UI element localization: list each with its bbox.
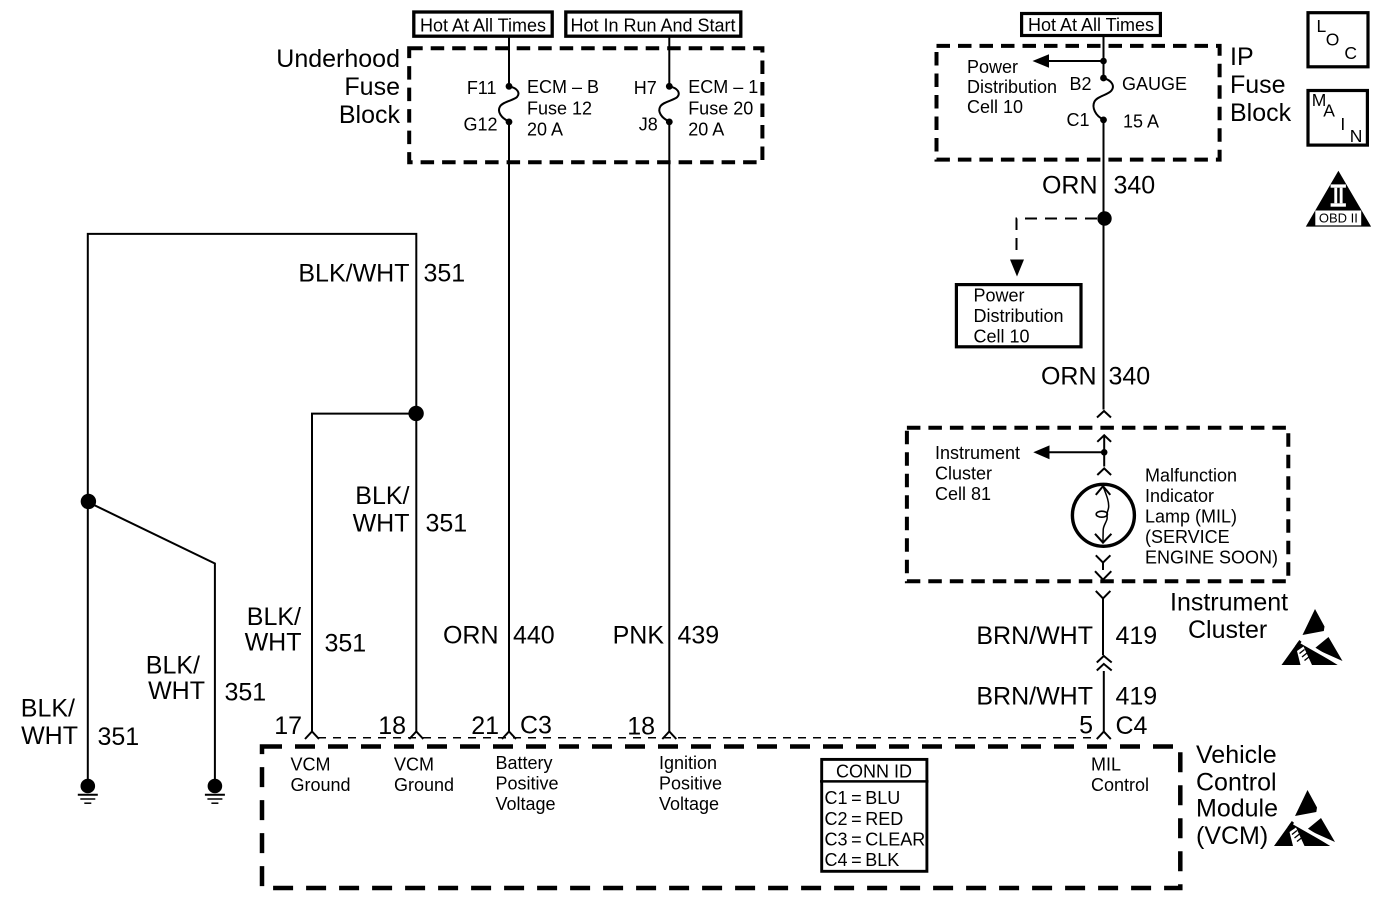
svg-text:Cluster: Cluster xyxy=(935,464,992,484)
label BLK/WHT 351 (top) xyxy=(298,260,465,288)
svg-text:Module: Module xyxy=(1196,795,1278,823)
svg-text:Cell 10: Cell 10 xyxy=(974,327,1030,347)
svg-text:340: 340 xyxy=(1109,363,1151,391)
svg-text:A: A xyxy=(1323,101,1335,121)
Instrument Cluster Cell 81 text xyxy=(935,443,1020,504)
svg-text:Cell 10: Cell 10 xyxy=(967,97,1023,117)
svg-text:ORN: ORN xyxy=(1041,363,1097,391)
dashed branch wire to Power Distribution xyxy=(1017,219,1098,258)
svg-text:18: 18 xyxy=(378,712,406,740)
Ignition Positive Voltage text xyxy=(659,753,722,814)
connector pair below lamp xyxy=(1095,555,1111,579)
svg-text:C1: C1 xyxy=(1066,110,1089,130)
svg-text:BLK/: BLK/ xyxy=(247,603,301,631)
svg-text:BLK/: BLK/ xyxy=(146,652,200,680)
fuse ECM-1 Fuse 20 20A (H7/J8) xyxy=(659,83,678,125)
Vehicle Control Module dashed box xyxy=(262,747,1180,889)
svg-text:Fuse 12: Fuse 12 xyxy=(527,99,592,119)
svg-text:Indicator: Indicator xyxy=(1145,486,1214,506)
wire junction to lamp xyxy=(1103,452,1105,466)
svg-text:Cluster: Cluster xyxy=(1188,616,1267,644)
Underhood Fuse Block label xyxy=(276,45,400,129)
svg-text:WHT: WHT xyxy=(353,510,410,538)
svg-text:C4 = BLK: C4 = BLK xyxy=(825,850,900,870)
Underhood Fuse Block dashed box xyxy=(409,48,762,162)
svg-text:Fuse: Fuse xyxy=(344,73,400,101)
Vehicle Control Module (VCM) label xyxy=(1196,741,1278,850)
connector at VCM pin 5 xyxy=(1097,732,1111,740)
svg-text:N: N xyxy=(1350,126,1363,146)
junction dot xyxy=(1100,58,1107,65)
svg-text:Battery: Battery xyxy=(496,753,553,773)
svg-text:C4: C4 xyxy=(1116,712,1148,740)
svg-text:BLK/WHT: BLK/WHT xyxy=(298,260,409,288)
svg-text:WHT: WHT xyxy=(148,677,205,705)
OBD II symbol xyxy=(1306,171,1371,227)
VCM Ground text 2 xyxy=(394,755,454,796)
svg-text:J8: J8 xyxy=(639,115,658,135)
svg-text:Distribution: Distribution xyxy=(974,306,1064,326)
wire ORN 440 xyxy=(508,125,510,732)
svg-text:CONN ID: CONN ID xyxy=(836,761,912,781)
svg-text:GAUGE: GAUGE xyxy=(1122,74,1187,94)
svg-text:IP: IP xyxy=(1230,43,1254,71)
thin dashed connector face line xyxy=(318,737,1096,739)
svg-text:Distribution: Distribution xyxy=(967,77,1057,97)
Power Distribution Cell 10 text (IP block) xyxy=(967,57,1057,117)
svg-text:Ground: Ground xyxy=(291,775,351,795)
svg-text:Control: Control xyxy=(1196,769,1277,797)
connector at VCM pin 21 xyxy=(502,732,516,740)
svg-text:Ignition: Ignition xyxy=(659,753,717,773)
MAIN reference box xyxy=(1308,90,1367,146)
Power Distribution Cell 10 box xyxy=(956,285,1081,347)
svg-text:BRN/WHT: BRN/WHT xyxy=(976,622,1093,650)
svg-text:Instrument: Instrument xyxy=(1170,589,1288,617)
svg-text:C: C xyxy=(1344,43,1357,63)
svg-text:Positive: Positive xyxy=(659,774,722,794)
svg-text:BLK/: BLK/ xyxy=(355,482,409,510)
junction dot (big) xyxy=(1097,211,1111,225)
svg-text:351: 351 xyxy=(98,723,140,751)
IP Fuse Block label xyxy=(1230,43,1292,127)
connector at VCM pin 17 xyxy=(305,732,319,740)
svg-text:G12: G12 xyxy=(463,115,497,135)
Battery Positive Voltage text xyxy=(496,753,559,814)
label PNK 439 xyxy=(613,622,720,650)
connector female at lamp xyxy=(1097,468,1111,475)
svg-text:BLK/: BLK/ xyxy=(21,695,75,723)
CONN ID table xyxy=(820,759,929,871)
svg-text:WHT: WHT xyxy=(21,722,78,750)
wire from Hot At All Times into IP block xyxy=(1103,37,1105,76)
wire BLK/WHT 351 to ground 2 xyxy=(88,502,215,779)
label BLK/WHT 351 (pin 17) xyxy=(245,603,367,658)
svg-text:20 A: 20 A xyxy=(527,120,563,140)
svg-text:Cell 81: Cell 81 xyxy=(935,484,991,504)
svg-text:17: 17 xyxy=(274,712,302,740)
junction dot xyxy=(81,494,96,509)
MIL Control text xyxy=(1091,755,1149,796)
svg-text:Underhood: Underhood xyxy=(276,45,400,73)
svg-text:MIL: MIL xyxy=(1091,755,1121,775)
svg-text:Lamp (MIL): Lamp (MIL) xyxy=(1145,507,1237,527)
svg-text:ORN: ORN xyxy=(1042,172,1098,200)
svg-text:OBD II: OBD II xyxy=(1319,210,1358,225)
ground G2 xyxy=(205,779,225,804)
ESD symbol (instrument cluster) xyxy=(1282,609,1343,665)
svg-text:20 A: 20 A xyxy=(688,120,724,140)
svg-text:Ground: Ground xyxy=(394,775,454,795)
svg-text:C2 = RED: C2 = RED xyxy=(825,809,904,829)
Instrument Cluster label xyxy=(1170,589,1288,645)
Malfunction Indicator Lamp text xyxy=(1145,465,1278,567)
svg-text:Fuse: Fuse xyxy=(1230,71,1286,99)
svg-text:5: 5 xyxy=(1079,712,1093,740)
svg-text:351: 351 xyxy=(426,510,468,538)
in-line connector (double chevron) xyxy=(1097,656,1112,671)
wire PNK 439 xyxy=(668,125,670,732)
label ORN 340 (2nd) xyxy=(1041,363,1150,391)
Instrument Cluster dashed box xyxy=(907,428,1288,582)
svg-text:ECM – B: ECM – B xyxy=(527,77,599,97)
label box "Hot At All Times" (underhood) xyxy=(414,12,552,36)
svg-text:PNK: PNK xyxy=(613,622,665,650)
svg-text:B2: B2 xyxy=(1069,74,1091,94)
svg-text:(SERVICE: (SERVICE xyxy=(1145,527,1230,547)
svg-text:(VCM): (VCM) xyxy=(1196,822,1268,850)
arrowhead down xyxy=(1010,260,1024,277)
svg-text:Malfunction: Malfunction xyxy=(1145,465,1237,485)
connector female into Instrument Cluster xyxy=(1097,411,1111,418)
LOC reference box xyxy=(1308,13,1368,67)
svg-text:Voltage: Voltage xyxy=(496,794,556,814)
connector male inside cluster xyxy=(1097,435,1111,452)
ground G1 xyxy=(78,779,98,804)
svg-text:351: 351 xyxy=(424,260,466,288)
wire BLK/WHT 351 from VCM pin 18 to ground xyxy=(88,234,417,779)
svg-text:C1 = BLU: C1 = BLU xyxy=(825,788,901,808)
svg-text:Hot At All Times: Hot At All Times xyxy=(1028,15,1154,35)
connector female below cluster box xyxy=(1096,591,1111,655)
svg-text:Hot At All Times: Hot At All Times xyxy=(420,16,546,36)
svg-text:BRN/WHT: BRN/WHT xyxy=(976,683,1093,711)
svg-text:C3 = CLEAR: C3 = CLEAR xyxy=(825,829,926,849)
svg-text:419: 419 xyxy=(1116,683,1158,711)
svg-text:ECM – 1: ECM – 1 xyxy=(688,77,758,97)
svg-text:Power: Power xyxy=(974,286,1025,306)
svg-text:H7: H7 xyxy=(634,78,657,98)
wire BLK/WHT 351 from VCM pin 17 xyxy=(312,414,416,732)
svg-text:Hot In Run And Start: Hot In Run And Start xyxy=(570,16,735,36)
lamp MIL circle xyxy=(1072,484,1134,546)
svg-text:351: 351 xyxy=(225,679,267,707)
IP Fuse Block dashed box xyxy=(937,46,1220,160)
ESD symbol (VCM) xyxy=(1274,790,1335,846)
wire from Hot In Run And Start to fuse H7 xyxy=(668,38,670,85)
svg-text:15 A: 15 A xyxy=(1123,112,1159,132)
svg-text:Positive: Positive xyxy=(496,774,559,794)
label BLK/WHT 351 (ground 1) xyxy=(21,695,139,752)
junction dot xyxy=(1101,449,1108,456)
svg-text:440: 440 xyxy=(513,622,555,650)
svg-text:439: 439 xyxy=(678,622,720,650)
svg-text:Instrument: Instrument xyxy=(935,443,1020,463)
label BLK/WHT 351 (ground 2) xyxy=(146,652,266,707)
wire from Hot At All Times to fuse F11 xyxy=(508,38,510,85)
svg-text:18: 18 xyxy=(627,713,655,741)
wire ORN 340 xyxy=(1103,123,1105,410)
svg-text:VCM: VCM xyxy=(291,755,331,775)
label BRN/WHT 419 (2nd) xyxy=(976,683,1157,711)
fuse GAUGE 15A (B2/C1) xyxy=(1094,75,1113,124)
arrow to Power Distribution Cell 10 xyxy=(1033,54,1104,67)
connector at VCM pin 18 xyxy=(409,732,423,740)
label BLK/WHT 351 (pin 18) xyxy=(353,482,468,538)
svg-text:VCM: VCM xyxy=(394,755,434,775)
svg-text:21: 21 xyxy=(471,712,499,740)
lamp filament xyxy=(1095,486,1111,542)
svg-text:Block: Block xyxy=(1230,99,1292,127)
svg-text:F11: F11 xyxy=(467,78,497,98)
VCM Ground text 1 xyxy=(291,755,351,796)
svg-text:419: 419 xyxy=(1116,622,1158,650)
wire BRN/WHT 419 to VCM xyxy=(1103,671,1105,732)
svg-text:340: 340 xyxy=(1114,172,1156,200)
connector at VCM pin 18 (ignition) xyxy=(662,732,676,740)
label box "Hot At All Times" (IP) xyxy=(1022,14,1161,36)
svg-text:Voltage: Voltage xyxy=(659,794,719,814)
label box "Hot In Run And Start" xyxy=(566,12,741,36)
svg-text:351: 351 xyxy=(325,630,367,658)
svg-text:Control: Control xyxy=(1091,775,1149,795)
junction dot xyxy=(408,406,423,421)
svg-text:WHT: WHT xyxy=(245,629,302,657)
svg-text:I: I xyxy=(1340,114,1345,134)
fuse ECM-B Fuse 12 20A (F11/G12) xyxy=(499,83,518,125)
label BRN/WHT 419 xyxy=(976,622,1157,650)
svg-text:Vehicle: Vehicle xyxy=(1196,741,1277,769)
label ORN 440 xyxy=(443,622,555,650)
svg-text:C3: C3 xyxy=(520,712,552,740)
svg-text:ORN: ORN xyxy=(443,622,499,650)
svg-text:Fuse 20: Fuse 20 xyxy=(688,99,753,119)
svg-text:Power: Power xyxy=(967,57,1018,77)
svg-text:Block: Block xyxy=(339,101,401,129)
arrow to Instrument Cluster Cell 81 xyxy=(1033,445,1104,459)
svg-text:ENGINE SOON): ENGINE SOON) xyxy=(1145,548,1278,568)
svg-text:O: O xyxy=(1326,30,1340,50)
label ORN 340 xyxy=(1042,172,1155,200)
